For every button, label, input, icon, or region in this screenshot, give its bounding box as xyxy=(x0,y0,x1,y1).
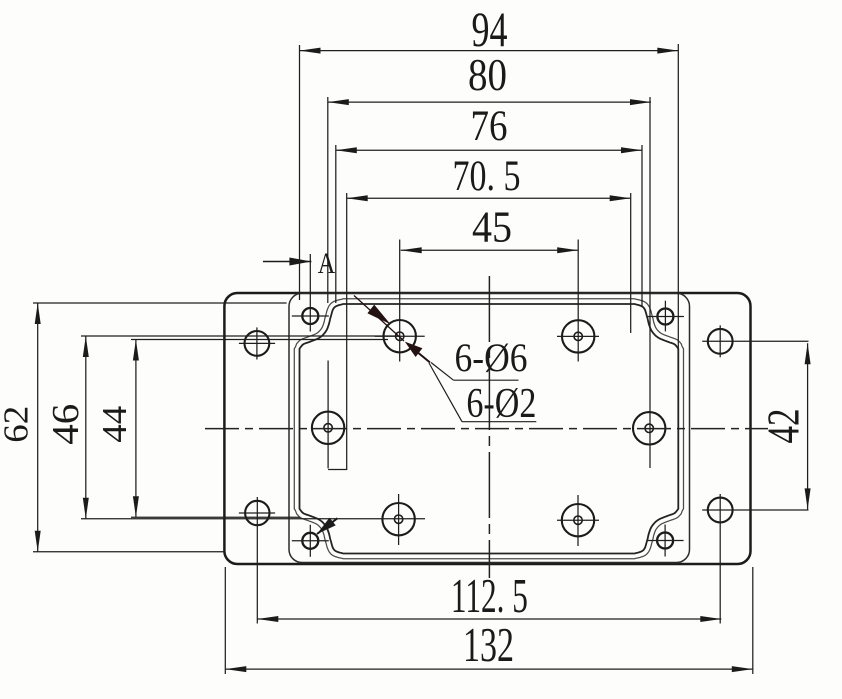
section line through hole A-A xyxy=(354,296,404,342)
hole phi6 mid-right xyxy=(633,412,665,444)
flange hole top-right xyxy=(708,329,733,354)
svg-text:94: 94 xyxy=(472,1,508,57)
corner screw hole top-left xyxy=(302,308,318,324)
70.5 extension lines xyxy=(346,193,348,470)
46 extension lines xyxy=(81,335,398,337)
dimension 80 xyxy=(328,101,651,103)
dimension 112. 5 xyxy=(257,618,721,620)
hole centerline crosses xyxy=(375,335,425,337)
vertical centerline xyxy=(488,276,490,578)
dimension 62 xyxy=(37,303,39,552)
hole phi6 top-right xyxy=(562,320,594,352)
132 extension lines xyxy=(224,567,226,674)
svg-text:112. 5: 112. 5 xyxy=(451,568,528,623)
flange outer outline xyxy=(224,293,750,564)
svg-text:45: 45 xyxy=(472,203,512,252)
dimension 46 xyxy=(85,336,87,519)
svg-text:132: 132 xyxy=(463,617,514,672)
lid middle outline (notched) xyxy=(294,299,683,559)
dimension 42 xyxy=(807,343,809,509)
flange hole bottom-left xyxy=(245,501,269,525)
svg-text:80: 80 xyxy=(468,50,507,100)
svg-text:62: 62 xyxy=(0,406,36,443)
svg-text:6-Ø2: 6-Ø2 xyxy=(466,381,536,427)
hole phi6 top-left xyxy=(384,320,416,352)
svg-text:A: A xyxy=(318,247,336,280)
dimension 132 xyxy=(225,668,753,670)
94 extension lines xyxy=(299,45,301,300)
flange hole top-left xyxy=(245,331,270,356)
corner screw hole bottom-right xyxy=(657,533,673,549)
80 extension lines xyxy=(327,97,329,303)
dimension 44 xyxy=(135,340,137,518)
section arrow (bottom-left corner) xyxy=(317,518,338,534)
dimension 76 xyxy=(336,149,642,151)
dimension 94 xyxy=(300,50,679,52)
hole phi6 mid-left xyxy=(312,412,344,444)
dimension 45 xyxy=(401,249,579,251)
svg-text:46: 46 xyxy=(45,404,87,445)
svg-text:44: 44 xyxy=(95,406,134,443)
leader 6-phi6 xyxy=(431,363,454,381)
flange hole bottom-right xyxy=(708,498,733,523)
section arrow A (top-left) xyxy=(263,261,311,263)
44 extension lines xyxy=(131,339,388,341)
svg-text:6-Ø6: 6-Ø6 xyxy=(455,335,528,380)
leader 6-phi2 xyxy=(429,363,462,422)
62 extension lines xyxy=(33,302,287,304)
hole phi6 bottom-left xyxy=(382,503,414,535)
76 extension lines xyxy=(335,145,337,303)
svg-text:42: 42 xyxy=(758,409,809,444)
box body outline (rounded rect inside flange) xyxy=(289,293,690,562)
svg-text:76: 76 xyxy=(471,103,508,150)
horizontal centerline xyxy=(205,428,768,430)
corner screw hole top-right xyxy=(657,309,673,325)
svg-text:70. 5: 70. 5 xyxy=(453,153,521,200)
hole phi6 bottom-right xyxy=(562,504,594,536)
lid inner outline (notched) xyxy=(300,304,679,554)
dimension 70. 5 xyxy=(347,197,631,199)
corner screw hole bottom-left xyxy=(302,533,318,549)
